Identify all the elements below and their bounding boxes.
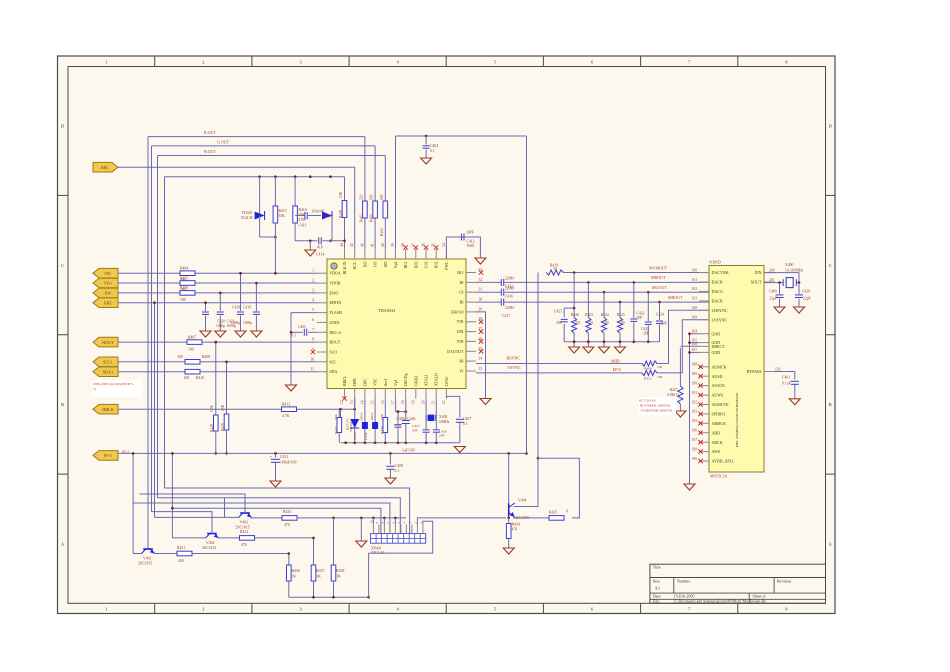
svg-text:ABMCK: ABMCK (712, 421, 727, 426)
svg-text:GI: GI (459, 291, 464, 295)
svg-text:42: 42 (360, 243, 364, 247)
capacitor C418 1000p (240, 273, 242, 311)
svg-text:R407: R407 (188, 335, 196, 339)
capacitor C417 220M (500, 299, 502, 306)
svg-text:BGA768AK_A(MST6): BGA768AK_A(MST6) (640, 404, 670, 408)
pin 29 FBCSO (466, 311, 476, 313)
connector pin 1 stub (422, 525, 424, 534)
svg-text:N401: N401 (467, 244, 475, 248)
wire XP401 col9 to V404 emitter line (417, 518, 506, 525)
svg-text:24: 24 (479, 357, 483, 361)
wire RI line to DACB (476, 281, 501, 283)
resistor R408 100 (185, 360, 200, 365)
pin 191 AUWS (699, 394, 709, 396)
svg-text:Size: Size (653, 579, 660, 584)
no-connect X on pin 12 BREL (342, 396, 346, 400)
pin 162 DACG (699, 290, 709, 292)
wire bottom rail (289, 596, 369, 598)
svg-text:R404: R404 (180, 267, 188, 271)
svg-text:10: 10 (369, 520, 373, 524)
svg-text:R425: R425 (617, 313, 625, 317)
capacitor C436 (397, 412, 399, 424)
svg-text:R432: R432 (240, 530, 248, 534)
svg-text:X402: X402 (439, 415, 448, 419)
svg-text:SCO: SCO (330, 351, 338, 355)
resistor R438 1K (331, 565, 336, 581)
svg-text:R423: R423 (585, 313, 593, 317)
pin 21 XTALO (435, 389, 437, 399)
wire EHT to pin4 EHTIN (118, 302, 317, 304)
wire R432 to R437 top (255, 537, 314, 539)
port VD- (93, 268, 118, 278)
ground for C410 (794, 307, 805, 313)
pin 13 HPB (354, 389, 356, 399)
svg-text:AUWS: AUWS (712, 393, 724, 398)
svg-text:220M: 220M (505, 286, 515, 290)
svg-text:LHSYNC: LHSYNC (712, 308, 728, 313)
svg-text:20P: 20P (661, 322, 667, 326)
op-amp U1 TDA9332 body (327, 259, 466, 389)
svg-text:0: 0 (566, 510, 568, 514)
wire nest L4 to XP401 col2 (172, 508, 381, 533)
svg-text:0.1: 0.1 (463, 422, 468, 426)
wire R409 to LHSYNC (657, 310, 709, 363)
svg-text:G02: G02 (425, 261, 429, 268)
resistor R410 100 (185, 369, 200, 374)
svg-text:R436: R436 (292, 569, 300, 573)
resistor R431 430 (177, 551, 192, 556)
resistor R435 0 (549, 516, 564, 521)
capacitor C406 electrolytic on pin17 Vp1 (396, 399, 406, 412)
svg-text:100: 100 (177, 355, 183, 359)
wire pin5 FLASH left (291, 312, 317, 314)
wire BI line to DACR (476, 301, 501, 303)
svg-text:LFSU: LFSU (445, 376, 449, 386)
svg-text:15: 15 (371, 400, 375, 404)
svg-text:HPB: HPB (353, 378, 357, 386)
resistor R415 53K (274, 177, 276, 206)
wire bus vertical EHT branch (154, 303, 156, 518)
wire FBCSO to ground (476, 312, 486, 399)
ground near XP401 (356, 541, 367, 547)
svg-text:C410: C410 (802, 290, 810, 294)
svg-text:R415: R415 (279, 209, 287, 213)
wire V403 collector left (225, 498, 240, 518)
svg-text:2SC1815: 2SC1815 (138, 562, 152, 566)
svg-text:C427: C427 (412, 424, 420, 428)
resistor R425 59 (619, 301, 622, 304)
no-connect X on pin 28 (479, 320, 483, 324)
ground for FBCSO (480, 399, 491, 405)
svg-text:C436: C436 (407, 417, 415, 421)
svg-text:150: 150 (775, 367, 781, 371)
svg-text:193: 193 (692, 410, 698, 414)
connector pin 9 stub (378, 525, 380, 534)
resistor R436 1K (287, 565, 292, 581)
capacitor C424 20P (658, 301, 661, 304)
resistor R427 6.8K 1% (679, 348, 681, 386)
port SDA1 (93, 367, 118, 377)
svg-text:R418: R418 (339, 210, 343, 218)
svg-text:34: 34 (442, 243, 446, 247)
ground for R434 (503, 548, 514, 554)
pin 36 G02 (425, 249, 427, 259)
port 8V-1 (93, 451, 118, 461)
svg-text:8V-1: 8V-1 (104, 453, 112, 458)
pin 160 DACVSM (699, 272, 709, 274)
sheet background (58, 56, 836, 614)
svg-text:32: 32 (479, 278, 483, 282)
svg-text:10K: 10K (221, 404, 225, 411)
svg-text:EW: EW (105, 291, 112, 296)
crystal X400 symbol (780, 282, 784, 284)
port VD+ (93, 278, 118, 288)
svg-text:240: 240 (769, 268, 775, 272)
wire EW to R406 (118, 292, 180, 294)
svg-text:C418: C418 (232, 306, 240, 310)
resistor R419 33 (546, 270, 563, 275)
pin 28 VIN (466, 321, 476, 323)
resistor R402 180 on BO (384, 156, 386, 202)
svg-text:XIN: XIN (754, 270, 761, 275)
svg-text:R433: R433 (283, 510, 291, 514)
svg-text:V404: V404 (518, 499, 527, 503)
svg-text:GND: GND (712, 350, 721, 355)
svg-text:1K: 1K (336, 575, 341, 579)
svg-text:R403: R403 (359, 214, 363, 222)
wire HBLK branch down to R417 (340, 409, 342, 417)
resistor R406 180 (180, 291, 195, 296)
svg-text:MHB: MHB (611, 360, 620, 364)
svg-text:C405: C405 (298, 325, 306, 329)
svg-text:VSC: VSC (374, 378, 378, 386)
red note annotation (92, 380, 142, 397)
svg-text:AVDD_APLL: AVDD_APLL (712, 459, 736, 464)
svg-text:C417: C417 (502, 314, 510, 318)
wire V402 emitter to R432 (218, 537, 240, 539)
connector pin 10 stub (372, 525, 374, 534)
svg-text:14: 14 (360, 400, 364, 404)
svg-text:10P: 10P (637, 316, 643, 320)
svg-text:RCT 324 X4: RCT 324 X4 (639, 399, 656, 403)
pin 26 VIN (466, 340, 476, 342)
pin 19 GND2 (415, 389, 417, 399)
svg-text:M8.1: M8.1 (370, 412, 374, 420)
svg-text:C:\Documents and Settings\gils: C:\Documents and Settings\gilson\09.09lc… (674, 600, 751, 604)
pin 193 SPDIFO (699, 413, 709, 415)
wire bus vertical GOUT to V402 base (151, 146, 153, 512)
pin 41 GO (374, 249, 376, 259)
svg-text:C425: C425 (554, 310, 562, 314)
svg-text:30: 30 (479, 298, 483, 302)
resistor R404 180 (180, 271, 195, 276)
svg-text:C414: C414 (316, 253, 324, 257)
no-connect X on pin 193 (698, 412, 702, 416)
svg-text:FLASH: FLASH (330, 311, 343, 315)
svg-text:HSYNC: HSYNC (507, 356, 521, 361)
svg-text:192: 192 (692, 400, 698, 404)
wire V403 base feed (140, 494, 246, 513)
svg-text:R410: R410 (196, 376, 204, 380)
svg-text:5: 5 (312, 308, 314, 312)
svg-text:SCL: SCL (330, 360, 338, 364)
svg-text:16: 16 (381, 400, 385, 404)
svg-text:221: 221 (575, 321, 581, 325)
svg-text:29P: 29P (412, 429, 418, 433)
svg-text:VSYNC: VSYNC (507, 365, 521, 370)
connector XP401 TJC3-10 (371, 534, 426, 544)
svg-text:UIN: UIN (457, 330, 464, 334)
svg-text:4: 4 (312, 298, 314, 302)
svg-text:0.1uF: 0.1uF (782, 382, 791, 386)
svg-text:GND1: GND1 (330, 321, 340, 325)
ground for C414 (309, 241, 311, 250)
pin 150 BYPASS (764, 371, 774, 373)
pin 38 BL2 (405, 249, 407, 259)
svg-text:196: 196 (692, 429, 698, 433)
svg-text:MROUT: MROUT (668, 295, 683, 300)
svg-text:195: 195 (692, 419, 698, 423)
pin 25 DACOUT (466, 350, 476, 352)
crystal X402 12MHz (425, 399, 427, 415)
svg-text:MBOUT: MBOUT (651, 275, 666, 280)
svg-text:6: 6 (312, 318, 314, 322)
svg-text:220M: 220M (505, 277, 515, 281)
svg-text:R417: R417 (334, 426, 338, 434)
svg-text:DACB: DACB (712, 280, 723, 285)
pin 197 ABCK (699, 441, 709, 443)
wire XP401 col5 to ground bus (394, 518, 396, 525)
svg-text:163: 163 (692, 297, 698, 301)
wire SDA1 to R410 (118, 371, 185, 373)
pin 190 AUSCK (699, 385, 709, 387)
transistor V403 2SC1815 (240, 512, 250, 514)
svg-text:1000p: 1000p (216, 324, 225, 328)
svg-text:10K: 10K (380, 414, 384, 421)
resistor R423 59 (587, 281, 590, 284)
svg-text:53K: 53K (279, 214, 286, 218)
wire diode-box top (165, 176, 345, 178)
no-connect X on pin 26 (479, 339, 483, 343)
svg-text:R02: R02 (435, 261, 439, 268)
svg-text:2SC1815: 2SC1815 (202, 546, 216, 550)
pin 43 RCL (354, 249, 356, 259)
no-connect X on pin 196 (698, 431, 702, 435)
svg-text:56K: 56K (334, 414, 338, 421)
svg-text:8: 8 (312, 338, 314, 342)
svg-text:160: 160 (692, 268, 698, 272)
svg-text:R424: R424 (601, 313, 609, 317)
svg-text:AUSD: AUSD (712, 374, 723, 379)
svg-text:ABD: ABD (712, 430, 721, 435)
svg-text:MVMOUT: MVMOUT (649, 265, 668, 270)
border frame (58, 56, 836, 614)
svg-text:430: 430 (178, 559, 184, 563)
resistor R407 100 (187, 340, 202, 345)
svg-text:C424: C424 (656, 313, 664, 317)
svg-text:C411: C411 (299, 224, 307, 228)
pin 22 LFSU (445, 389, 447, 399)
pin 33 BLI (466, 272, 476, 274)
wire R407 to pin8 HOUT (202, 341, 317, 343)
svg-text:DACG: DACG (712, 289, 723, 294)
wire R415 bottom down (274, 237, 276, 273)
svg-text:4.7K: 4.7K (282, 414, 290, 418)
capacitor C409 22pF (779, 283, 781, 294)
svg-text:VD+: VD+ (104, 281, 113, 286)
svg-text:17: 17 (391, 400, 395, 404)
svg-text:R435: R435 (549, 511, 557, 515)
wire R404 to pin1 VDOA (195, 272, 317, 274)
ferrite bead M8.1 on pin15 (374, 399, 376, 423)
wire R405 to pin2 VDOB (195, 282, 317, 284)
wire V401 collector left (133, 553, 142, 555)
svg-text:B.OUT: B.OUT (204, 149, 216, 154)
title block (650, 564, 826, 603)
svg-text:33: 33 (553, 267, 557, 271)
pin 241 XOUT (764, 281, 775, 283)
wire Vp2 supply line (396, 135, 527, 137)
svg-text:R402: R402 (380, 228, 384, 236)
pin 37 B02 (415, 249, 417, 259)
wire rail drop mid (171, 453, 173, 538)
wire R431 to R436 top (192, 553, 289, 555)
svg-text:BYPASS: BYPASS (747, 369, 762, 374)
pin 3 EWO (317, 292, 327, 294)
svg-text:C404: C404 (430, 144, 438, 148)
svg-text:C401: C401 (782, 376, 790, 380)
resistor R437 1K (311, 565, 316, 581)
svg-text:191: 191 (692, 391, 698, 395)
svg-text:30PF: 30PF (466, 231, 474, 235)
wire Vp2 drop to V404 (508, 453, 510, 505)
pin 166 DRECT (699, 345, 709, 347)
svg-text:59: 59 (605, 321, 609, 325)
no-connect X on pin 33 (479, 270, 483, 274)
svg-text:0.1: 0.1 (395, 469, 400, 473)
no-connect X on pin 191 (698, 393, 702, 397)
svg-text:C409: C409 (769, 290, 777, 294)
capacitor C405 0.1 (308, 331, 317, 333)
pin 39 Vp2 (394, 249, 396, 259)
svg-text:BREL: BREL (343, 375, 347, 386)
wire HBLK to R412 (118, 408, 281, 410)
svg-text:Sec1: Sec1 (384, 378, 388, 386)
pin 2 VDOB (317, 282, 327, 284)
svg-text:MST5C16: MST5C16 (710, 474, 727, 479)
svg-text:R408: R408 (202, 355, 210, 359)
zener diode VD403 RD7.5V (354, 399, 356, 420)
resistor R432 470 (240, 536, 255, 541)
svg-text:C432: C432 (364, 432, 368, 440)
svg-text:22pF: 22pF (769, 297, 777, 301)
pin 10 SCL (317, 361, 327, 363)
svg-text:C412: C412 (467, 240, 475, 244)
svg-text:241: 241 (769, 278, 775, 282)
transistor V404 2SC1815 (508, 504, 510, 517)
pin 168 LHSYNC (699, 309, 709, 311)
svg-text:1): 1) (93, 387, 96, 391)
svg-text:41P: 41P (317, 246, 323, 250)
svg-text:161: 161 (692, 278, 698, 282)
wire R406 to pin3 EWO (195, 292, 317, 294)
svg-text:C420: C420 (217, 320, 225, 324)
ground for bottom rail (454, 447, 465, 453)
svg-text:+5V(MST6)B+3(MST6): +5V(MST6)B+3(MST6) (640, 409, 672, 413)
capacitor C419 1000p (255, 283, 257, 311)
svg-text:OSB-1(SEL)(2-4)SW(PCB 5-: OSB-1(SEL)(2-4)SW(PCB 5- (93, 382, 134, 386)
svg-text:R426: R426 (571, 313, 579, 317)
capacitor C410 22pF (798, 283, 800, 294)
no-connect X on pin 197 (698, 440, 702, 444)
pin 20 XTALI (425, 389, 427, 399)
svg-text:180: 180 (370, 194, 374, 200)
resistor R416 20K (294, 177, 296, 206)
wire XP401 pin1 column down to rail (368, 553, 370, 597)
ground for R423 (583, 347, 594, 353)
pin 34 PWL (445, 249, 447, 259)
svg-text:R416: R416 (299, 208, 307, 212)
resistor R428 1.5K (215, 342, 217, 415)
svg-text:1000p: 1000p (243, 321, 252, 325)
svg-text:R412: R412 (282, 403, 290, 407)
svg-text:M8.1: M8.1 (360, 412, 364, 420)
svg-text:RD7.5V: RD7.5V (346, 418, 350, 430)
svg-text:22: 22 (442, 400, 446, 404)
resistor R430 10K on pin16 (384, 399, 386, 418)
svg-text:100uF/16V: 100uF/16V (280, 461, 298, 465)
pin 1 VDOA (317, 272, 327, 274)
svg-text:10: 10 (310, 357, 314, 361)
ground for C409 (774, 307, 785, 313)
svg-text:100: 100 (183, 376, 189, 380)
svg-text:MVS: MVS (613, 368, 621, 372)
svg-text:MGOUT: MGOUT (652, 285, 667, 290)
wire GI line to DACG (476, 291, 501, 293)
wire bus vertical box corner (164, 177, 166, 488)
capacitor C427 29P on pin20 (423, 429, 430, 431)
pin 169 LVSYNC (699, 319, 709, 321)
svg-text:220: 220 (359, 194, 363, 200)
svg-text:R431: R431 (177, 546, 185, 550)
wire XP401 col3 to ground bus (383, 518, 385, 525)
svg-text:1: 1 (312, 269, 314, 273)
svg-text:R401: R401 (370, 214, 374, 222)
svg-text:7: 7 (312, 328, 314, 332)
svg-text:V403: V403 (240, 521, 249, 525)
pin 11 SDA (317, 371, 327, 373)
svg-text:44: 44 (340, 243, 344, 247)
connector pin 4 stub (405, 525, 407, 534)
svg-text:1.5K: 1.5K (210, 405, 214, 412)
pin 165 GND (699, 342, 709, 344)
svg-text:VD401: VD401 (241, 211, 252, 215)
connector pin 3 stub (411, 525, 413, 534)
svg-text:GND: GND (712, 331, 721, 336)
svg-text:R428: R428 (210, 424, 214, 432)
svg-text:VD-: VD- (104, 271, 112, 276)
svg-text:BL2: BL2 (404, 261, 408, 268)
capacitor C414 41P (318, 237, 320, 244)
svg-text:A3: A3 (655, 586, 660, 591)
wire nest L1 to XP401 col8 (165, 488, 410, 534)
wire R433 to ground bus (297, 517, 406, 519)
svg-text:0.1: 0.1 (292, 334, 297, 338)
svg-text:180: 180 (180, 298, 186, 302)
svg-text:ABCK: ABCK (712, 440, 723, 445)
svg-text:R430: R430 (380, 426, 384, 434)
svg-text:V401: V401 (143, 557, 152, 561)
